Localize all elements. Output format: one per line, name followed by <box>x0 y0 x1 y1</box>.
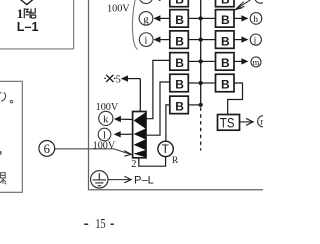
arrow from earth to P-L <box>108 176 131 183</box>
svg-text:15: 15 <box>95 216 105 232</box>
svg-text:B: B <box>175 100 184 114</box>
wire row6 left to bus <box>188 104 200 106</box>
node m <box>251 57 261 67</box>
arrow to h <box>234 15 248 21</box>
svg-text:100V: 100V <box>93 141 116 152</box>
junction dot row6 <box>199 103 203 107</box>
partial text maru period <box>10 100 13 103</box>
wire row3 left to bus <box>188 39 200 41</box>
node k <box>99 111 113 125</box>
partial kanji sen <box>0 173 6 184</box>
earth terminal symbol <box>91 171 108 188</box>
callout arrow pointing at row1 relay wire <box>235 0 252 10</box>
arrow to k <box>114 116 133 122</box>
wire row2 left to bus <box>188 17 200 19</box>
control bus (dashed continuation) <box>200 108 202 151</box>
arrow to l <box>114 131 133 137</box>
wire row6 left side down to transformer <box>166 105 170 141</box>
node g <box>139 12 153 26</box>
main figure frame (left edge and bottom edge, rest cut off) <box>89 0 265 190</box>
wire bus to row3 right <box>201 39 216 41</box>
note text box at left edge (cut off) <box>0 81 22 192</box>
relay B row3 left <box>170 31 189 48</box>
node e (cut off at top) <box>139 0 153 4</box>
svg-text:h: h <box>253 14 258 25</box>
arrow to m <box>234 58 248 64</box>
label box around 1F/L-1 (cut off at left/top) <box>0 0 74 49</box>
wire from callout 6 to terminal box <box>55 149 130 154</box>
svg-text:B: B <box>175 0 184 7</box>
relay B row4 right <box>216 53 235 71</box>
svg-text:i: i <box>144 35 147 47</box>
svg-text:T: T <box>162 142 170 156</box>
arrow from terminal box feed wire to note 5 <box>121 75 141 81</box>
svg-text:R: R <box>172 156 179 166</box>
note mark 5 with arrow to terminal box feed <box>104 75 121 86</box>
wire bus to row5 right <box>201 82 216 84</box>
remote control transformer TR <box>158 141 173 156</box>
control bus (solid part) <box>200 0 202 105</box>
arrow to j <box>234 36 248 42</box>
partial text sliver <box>0 151 1 155</box>
node h <box>250 13 262 25</box>
grouping bracket <box>132 0 137 50</box>
wire row5 left to bus <box>188 82 200 84</box>
relay B row5 left <box>170 74 189 92</box>
wire transformer bottom loop to terminal box bottom <box>139 157 166 167</box>
svg-text:B: B <box>175 78 184 92</box>
wire bus to row2 right <box>201 17 216 19</box>
junction dot row4 <box>199 59 203 63</box>
partial text "ri" <box>0 93 6 102</box>
svg-text:B: B <box>175 56 184 70</box>
svg-text:B: B <box>221 34 230 48</box>
relay B row1 left (cut off at top) <box>170 0 189 7</box>
svg-text:B: B <box>221 0 230 7</box>
wire note5 feed down into terminal box top <box>139 79 141 112</box>
svg-text:B: B <box>175 13 184 27</box>
terminal box with connection triangles <box>133 112 146 158</box>
relay B row2 left <box>170 10 189 28</box>
svg-text:TS: TS <box>220 114 235 131</box>
arrow to g <box>153 15 169 21</box>
relay B row2 right <box>216 10 235 28</box>
wire row5 left side down to terminal box <box>146 82 170 135</box>
relay B row6 left <box>170 96 189 114</box>
page number <box>84 216 114 232</box>
open arrowhead into terminal box <box>124 151 131 157</box>
svg-text:n: n <box>260 117 263 127</box>
relay B row3 right <box>216 31 235 48</box>
wire row5 right to time switch <box>228 83 243 115</box>
svg-text:B: B <box>221 56 230 70</box>
svg-text:100V: 100V <box>107 4 130 15</box>
svg-text:B: B <box>221 78 230 92</box>
wire row4 left side down to terminal box <box>146 60 170 118</box>
wire row4 left to bus <box>188 60 200 62</box>
junction dot row2 <box>199 16 203 20</box>
svg-text:B: B <box>175 34 184 48</box>
node f (cut off at top right) <box>255 0 267 3</box>
arrow to e (partial) <box>153 0 169 1</box>
relay B row5 right <box>216 74 235 92</box>
node j <box>250 34 261 45</box>
svg-text:B: B <box>221 13 230 27</box>
junction dot row3 <box>199 38 203 42</box>
svg-text:k: k <box>103 114 109 126</box>
svg-text:5: 5 <box>116 75 121 86</box>
distribution board symbol (diamond, cut off at top) <box>20 0 34 5</box>
node n (cut off at right edge) <box>258 116 269 127</box>
arrow to i <box>153 36 169 42</box>
svg-text:L–1: L–1 <box>17 20 39 34</box>
label 1F <box>17 6 36 21</box>
svg-text:m: m <box>253 57 260 67</box>
relay B row1 right (cut off at top) <box>216 0 235 7</box>
svg-text:1: 1 <box>17 6 24 21</box>
arrow from TS to node n <box>240 118 254 125</box>
svg-text:2: 2 <box>131 159 136 170</box>
junction dot row5 <box>199 81 203 85</box>
svg-text:g: g <box>143 14 149 26</box>
svg-text:P–L: P–L <box>134 175 154 187</box>
svg-text:j: j <box>253 35 257 46</box>
callout circle 6 <box>39 141 55 157</box>
relay B row4 left <box>170 53 189 71</box>
node l <box>98 128 111 141</box>
time switch TS <box>218 114 240 131</box>
node i <box>139 33 153 47</box>
svg-text:6: 6 <box>44 142 50 156</box>
wire bus to row4 right <box>201 60 216 62</box>
